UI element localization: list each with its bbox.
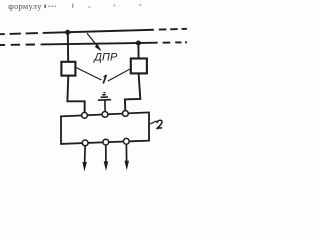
terminal: block 2 top-middle circle (ground input) — [102, 112, 108, 118]
wire: from lower-bus junction down to box 1 (right) — [137, 43, 139, 59]
box 1 (right sensor block) — [131, 59, 147, 74]
label 2 (block designator) — [157, 120, 163, 129]
terminal: block 2 top-right circle — [123, 111, 129, 117]
wire: top supply bus line (dashed-solid-dashed) — [0, 29, 187, 34]
ground symbol above block 2 — [98, 92, 111, 111]
wire: lower supply bus line (dashed-solid-dashed) — [0, 42, 187, 45]
output arrow (left) — [82, 146, 87, 172]
terminal: block 2 top-left circle — [82, 112, 88, 118]
leader line to label 2 — [150, 121, 156, 124]
terminal: block 2 bottom-middle circle — [103, 139, 109, 145]
node: junction dot on lower bus line — [136, 41, 141, 46]
output arrow (middle) — [104, 145, 109, 171]
leader arrow to label ДПР — [87, 33, 101, 51]
box 1 (left sensor block) — [61, 62, 75, 76]
leader line from left box to label 1 — [76, 68, 101, 80]
terminal: block 2 bottom-right circle — [123, 138, 129, 144]
output arrow (right) — [125, 144, 130, 170]
wire: right box output down-left-down to block 2 right terminal — [125, 73, 140, 110]
leader line from right box to label 1 — [108, 69, 131, 81]
label 1 (sensor blocks designator) — [103, 75, 106, 84]
block 2 (converter unit rectangle) — [61, 112, 149, 143]
terminal: block 2 bottom-left circle — [82, 140, 88, 146]
wire: from top-bus junction down to box 1 (left), crossing lower bus — [67, 32, 69, 62]
wire: left box output down-right-down to block 2 left terminal — [67, 76, 84, 113]
svg-text:ДПР: ДПР — [93, 51, 118, 63]
node: junction dot on top bus line — [65, 30, 70, 35]
cropped caption text "формулу" at page top — [0, 0, 187, 11]
